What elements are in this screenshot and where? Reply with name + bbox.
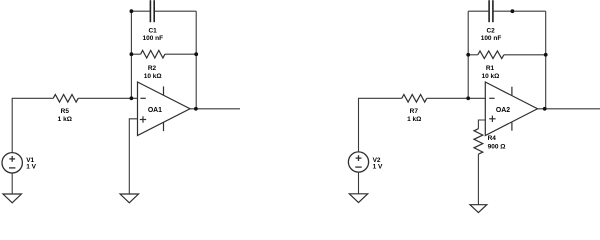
svg-text:900 Ω: 900 Ω: [488, 143, 506, 150]
wire V1 bottom lead: [11, 173, 13, 194]
svg-text:1 kΩ: 1 kΩ: [58, 116, 72, 123]
svg-text:R1: R1: [486, 65, 495, 72]
svg-text:1 V: 1 V: [26, 163, 36, 170]
wire V1 top lead and left input row to R5: [12, 98, 53, 152]
voltage source V2: [348, 152, 368, 172]
wire feedback right vertical branch OA2: [545, 11, 547, 109]
wire R4 bottom lead: [477, 154, 479, 205]
svg-text:1 V: 1 V: [373, 163, 383, 170]
svg-text:100 nF: 100 nF: [481, 35, 502, 42]
wire R5 to OA1 inverting input: [78, 97, 137, 99]
resistor R4: [474, 129, 483, 155]
ground below R4: [470, 205, 487, 213]
svg-text:100 nF: 100 nF: [143, 35, 164, 42]
capacitor C2: [489, 0, 493, 22]
junction OA2 output node: [543, 107, 547, 111]
wire feedback left vertical branch: [130, 11, 132, 98]
wire top row left of C2: [468, 10, 488, 12]
junction OA2 inverting input node: [466, 96, 470, 100]
capacitor C1: [150, 0, 154, 22]
ground below OA1 non-inverting input: [120, 194, 138, 203]
svg-text:R2: R2: [148, 65, 157, 72]
svg-text:OA1: OA1: [148, 107, 162, 114]
wire R2 row left lead: [131, 53, 140, 55]
junction R1 right: [544, 53, 548, 57]
junction OA1 output node: [194, 107, 198, 111]
wire feedback left vertical branch OA2: [467, 11, 469, 98]
ground below V2: [349, 194, 367, 203]
junction R1 left: [466, 53, 470, 57]
svg-text:C2: C2: [486, 28, 495, 35]
svg-text:R5: R5: [61, 108, 70, 115]
wire top row right of C2: [494, 10, 546, 12]
wire V2 bottom lead: [358, 172, 360, 194]
resistor R2: [141, 50, 165, 58]
wire top row left of C1: [131, 10, 149, 12]
junction R2 left: [130, 52, 134, 56]
wire R1 row left lead: [468, 54, 478, 56]
wire top row right of C1: [155, 10, 196, 12]
wire R2 row right lead: [165, 53, 196, 55]
svg-text:C1: C1: [148, 28, 157, 35]
voltage source V1: [2, 153, 22, 173]
wire feedback right vertical branch: [195, 11, 197, 109]
junction R2 right: [194, 52, 198, 56]
svg-text:R4: R4: [488, 135, 497, 142]
resistor R1: [478, 51, 504, 59]
resistor R5: [53, 95, 78, 103]
resistor R7: [402, 95, 427, 103]
svg-text:1 kΩ: 1 kΩ: [407, 116, 421, 123]
op-amp OA1: [138, 82, 191, 136]
wire OA1 non-inverting input to ground: [129, 119, 137, 194]
wire V2 top lead and input row to R7: [359, 98, 402, 152]
junction OA1 inverting input node: [130, 96, 134, 100]
wire OA2 non-inverting input to R4: [478, 120, 485, 129]
wire R7 to OA2 inverting input: [427, 97, 486, 99]
junction on C2 top wire: [511, 9, 515, 13]
op-amp OA2: [485, 82, 537, 136]
svg-text:10 kΩ: 10 kΩ: [144, 73, 162, 80]
svg-text:10 kΩ: 10 kΩ: [481, 73, 499, 80]
svg-text:R7: R7: [410, 108, 419, 115]
wire OA2 output: [538, 108, 600, 110]
ground below V1: [3, 194, 21, 203]
svg-text:OA2: OA2: [496, 107, 510, 114]
wire R1 row right lead: [504, 54, 546, 56]
junction top-left corner OA1 feedback: [130, 9, 134, 13]
wire OA1 output: [190, 108, 240, 110]
